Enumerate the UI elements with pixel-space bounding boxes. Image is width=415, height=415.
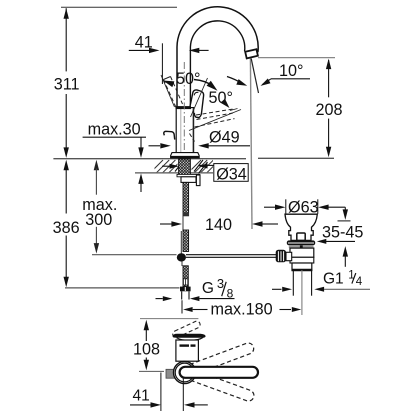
svg-text:140: 140 (205, 216, 232, 234)
svg-text:50°: 50° (176, 70, 200, 88)
svg-text:35-45: 35-45 (322, 224, 363, 242)
svg-text:Ø34: Ø34 (216, 165, 247, 183)
svg-text:108: 108 (133, 341, 160, 359)
svg-text:Ø63: Ø63 (288, 198, 319, 216)
svg-text:max.180: max.180 (211, 300, 273, 318)
svg-text:Ø49: Ø49 (209, 128, 240, 146)
svg-text:10°: 10° (279, 62, 303, 80)
svg-text:386: 386 (53, 219, 80, 237)
svg-text:300: 300 (85, 211, 112, 229)
svg-text:G1: G1 (323, 270, 344, 287)
svg-text:208: 208 (316, 101, 343, 119)
svg-text:311: 311 (54, 76, 80, 94)
svg-text:G: G (202, 280, 214, 297)
svg-text:max.30: max.30 (88, 120, 141, 138)
svg-text:3: 3 (217, 276, 224, 291)
svg-text:41: 41 (133, 388, 150, 405)
svg-text:50°: 50° (209, 89, 233, 107)
svg-text:4: 4 (356, 276, 363, 288)
